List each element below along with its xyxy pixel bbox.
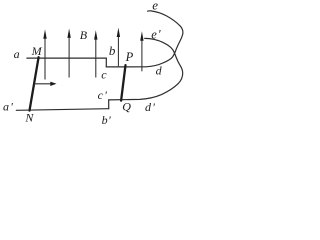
B field arrow 2: [67, 29, 70, 78]
svg-text:d: d: [156, 64, 163, 78]
rod MN (sliding rod on rails a-a'): [30, 57, 39, 110]
svg-text:e': e': [151, 27, 161, 41]
wire b'-c' step (vertical up from rail a' end): [108, 100, 110, 109]
B field arrow 5: [140, 31, 143, 71]
svg-text:Q: Q: [122, 100, 131, 114]
rail c'-d' with bend up into inner loop ending near e': [109, 38, 183, 100]
svg-text:c': c': [98, 88, 108, 102]
B field arrow 4: [117, 28, 120, 67]
svg-text:e: e: [152, 0, 158, 13]
svg-text:a: a: [14, 47, 20, 61]
rail c-d with bend up into outer loop ending near e: [106, 11, 183, 67]
svg-text:P: P: [125, 50, 134, 64]
B field arrow 3: [94, 30, 97, 77]
svg-text:a': a': [3, 99, 13, 113]
svg-text:d': d': [145, 100, 155, 114]
svg-text:B: B: [80, 28, 88, 42]
svg-text:N: N: [24, 110, 34, 124]
rail a (top horizontal rail): [27, 57, 106, 59]
wire b corner (vertical drop from rail a to rail cd): [105, 58, 107, 67]
rail a' (bottom horizontal rail): [16, 109, 108, 111]
rod PQ (rod on rails cd-c'd'): [121, 65, 125, 100]
svg-text:b: b: [109, 43, 116, 58]
B field arrow 1: [43, 29, 46, 79]
svg-text:M: M: [31, 44, 43, 58]
svg-text:b': b': [102, 113, 112, 127]
svg-text:c: c: [101, 68, 107, 82]
velocity arrow on rod MN: [34, 82, 57, 86]
